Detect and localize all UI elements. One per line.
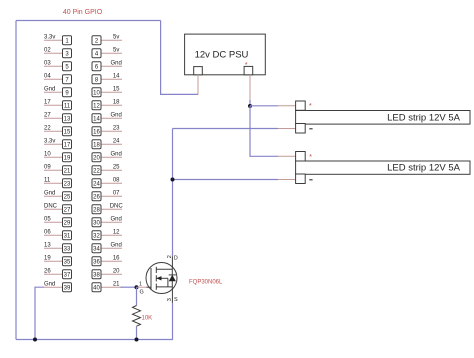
svg-text:21: 21 (64, 168, 71, 174)
LED strip 2 minus mark (309, 179, 312, 181)
pin 5 (03) (44, 60, 72, 70)
svg-text:11: 11 (64, 103, 71, 109)
LED strip 1 plus connector (296, 101, 306, 110)
svg-text:17: 17 (44, 99, 51, 105)
svg-text:28: 28 (93, 207, 100, 213)
svg-text:12: 12 (93, 103, 100, 109)
wire: top segment of ground loop (16, 20, 161, 22)
svg-text:20: 20 (113, 268, 120, 274)
svg-text:19: 19 (44, 255, 51, 261)
svg-text:DNC: DNC (44, 203, 58, 209)
svg-text:15: 15 (113, 86, 120, 92)
pin 26 (07) (92, 190, 122, 200)
svg-text:1: 1 (139, 281, 142, 287)
svg-text:40: 40 (93, 285, 100, 291)
resistor 10K (133, 306, 153, 327)
ground rail wire (16, 339, 173, 341)
svg-text:11: 11 (44, 177, 51, 183)
12v DC PSU box (185, 34, 266, 75)
pin 11 (17) (44, 99, 72, 109)
svg-text:25: 25 (113, 164, 120, 170)
gate pin stub (137, 286, 147, 288)
pin 16 (23) (92, 125, 122, 135)
svg-text:D: D (174, 256, 178, 262)
pin 3 (02) (44, 47, 72, 57)
svg-text:30: 30 (93, 220, 100, 226)
wire: pin 40 GPIO21 to gate node (121, 286, 137, 288)
pin 24 (08) (92, 177, 122, 187)
svg-text:13: 13 (64, 116, 71, 122)
svg-text:39: 39 (64, 285, 71, 291)
svg-text:Gnd: Gnd (111, 216, 122, 222)
svg-text:18: 18 (113, 99, 120, 105)
svg-text:Gnd: Gnd (111, 60, 122, 66)
wire: + node to LED strip 1 plus (250, 105, 278, 107)
svg-text:22: 22 (93, 168, 100, 174)
svg-text:10: 10 (93, 90, 100, 96)
LED strip 2 body (296, 161, 470, 174)
svg-text:02: 02 (44, 47, 51, 53)
pin 14 (Gnd) (92, 112, 122, 122)
svg-text:34: 34 (93, 246, 100, 252)
svg-text:10K: 10K (142, 316, 153, 322)
LED strip 2 minus connector (296, 174, 306, 184)
PSU negative pin stub (197, 75, 199, 95)
svg-text:S: S (174, 297, 178, 303)
svg-text:21: 21 (113, 281, 120, 287)
pin 37 (26) (44, 268, 72, 278)
svg-text:Gnd: Gnd (111, 242, 122, 248)
svg-text:33: 33 (64, 246, 71, 252)
svg-text:24: 24 (93, 181, 100, 187)
pin 36 (16) (92, 255, 122, 265)
svg-text:20: 20 (93, 155, 100, 161)
junction: gate node (135, 285, 139, 289)
svg-text:12: 12 (113, 229, 120, 235)
svg-text:22: 22 (44, 125, 51, 131)
svg-text:38: 38 (93, 272, 100, 278)
svg-text:LED strip 12V 5A: LED strip 12V 5A (387, 113, 461, 124)
pin 9 (Gnd) (44, 86, 72, 96)
svg-text:Gnd: Gnd (44, 281, 55, 287)
svg-text:06: 06 (44, 229, 51, 235)
pin 15 (22) (44, 125, 72, 135)
svg-text:15: 15 (64, 129, 71, 135)
PSU positive pin stub (249, 75, 251, 100)
svg-text:12v DC PSU: 12v DC PSU (195, 50, 249, 61)
svg-text:FQP30N06L: FQP30N06L (189, 280, 223, 286)
svg-text:04: 04 (44, 73, 51, 79)
pin 28 (DNC) (92, 203, 123, 213)
pin 1 (3.3v) (44, 34, 72, 44)
wire: left vertical of ground loop (15, 21, 17, 340)
svg-text:Gnd: Gnd (44, 190, 55, 196)
svg-text:Gnd: Gnd (111, 112, 122, 118)
svg-text:DNC: DNC (110, 203, 124, 209)
junction: PSU + node (248, 104, 252, 108)
pin 12 (18) (92, 99, 122, 109)
LED strip 1 minus connector (296, 124, 306, 134)
svg-text:29: 29 (64, 220, 71, 226)
svg-text:40 Pin GPIO: 40 Pin GPIO (63, 9, 103, 16)
svg-text:*: * (309, 101, 312, 110)
pin 13 (27) (44, 112, 72, 122)
svg-text:23: 23 (64, 181, 71, 187)
svg-text:26: 26 (93, 194, 100, 200)
svg-text:G: G (140, 289, 144, 295)
pin 39 (Gnd) (44, 281, 72, 291)
wire: gate node down to resistor (136, 287, 138, 305)
transistor Q1 FQP30N06L (N-MOSFET) (146, 263, 177, 294)
pin 31 (06) (44, 229, 72, 239)
svg-text:18: 18 (93, 142, 100, 148)
svg-text:07: 07 (113, 190, 120, 196)
svg-text:14: 14 (93, 116, 100, 122)
pin 8 (14) (92, 73, 122, 83)
svg-text:3.3v: 3.3v (44, 34, 55, 40)
pin 30 (Gnd) (92, 216, 122, 226)
svg-text:09: 09 (44, 164, 51, 170)
junction: resistor bottom on rail (135, 338, 139, 342)
pin 22 (25) (92, 164, 122, 174)
svg-text:*: * (309, 152, 312, 161)
svg-text:17: 17 (64, 142, 71, 148)
svg-text:23: 23 (113, 125, 120, 131)
wire: PSU negative to left loop (161, 21, 198, 95)
wire: + node down and to LED strip 2 plus (250, 106, 278, 156)
svg-text:10: 10 (44, 151, 51, 157)
svg-text:26: 26 (44, 268, 51, 274)
pin 38 (20) (92, 268, 122, 278)
pin 21 (09) (44, 164, 72, 174)
pin 20 (Gnd) (92, 151, 122, 161)
svg-text:25: 25 (64, 194, 71, 200)
svg-text:5v: 5v (113, 34, 119, 40)
svg-text:37: 37 (64, 272, 71, 278)
junction: strip2 minus on drain line (171, 178, 175, 182)
wire: LED strip 1 minus to drain line (278, 128, 296, 130)
pin 23 (11) (44, 177, 72, 187)
wire: LED strip 2 minus to drain line (278, 179, 296, 181)
svg-text:*: * (245, 60, 248, 69)
pin 27 (DNC) (44, 203, 72, 213)
pin 40 (21) (92, 281, 122, 291)
svg-text:5v: 5v (113, 47, 119, 53)
LED strip 2 plus connector (296, 152, 306, 162)
pin 4 (5v) (92, 47, 122, 57)
svg-text:05: 05 (44, 216, 51, 222)
junction: pin39 gnd on rail (33, 338, 37, 342)
wire: resistor to ground rail (136, 326, 138, 339)
svg-text:31: 31 (64, 233, 71, 239)
pin 6 (Gnd) (92, 60, 122, 70)
pin 2 (5v) (92, 34, 122, 44)
pin 17 (3.3v) (44, 138, 72, 148)
pin 19 (10) (44, 151, 72, 161)
pin 35 (19) (44, 255, 72, 265)
svg-text:Gnd: Gnd (44, 86, 55, 92)
wire: source down to ground rail (171, 289, 173, 303)
svg-text:3.3v: 3.3v (44, 138, 55, 144)
svg-text:08: 08 (113, 177, 120, 183)
svg-text:32: 32 (93, 233, 100, 239)
svg-text:24: 24 (113, 138, 120, 144)
PSU positive terminal (244, 66, 253, 74)
svg-text:36: 36 (93, 259, 100, 265)
svg-text:27: 27 (64, 207, 71, 213)
svg-text:LED strip 12V 5A: LED strip 12V 5A (387, 163, 461, 174)
pin 34 (Gnd) (92, 242, 122, 252)
pin 18 (24) (92, 138, 122, 148)
svg-text:03: 03 (44, 60, 51, 66)
wire: PSU + down to junction (249, 100, 251, 106)
svg-text:35: 35 (64, 259, 71, 265)
LED strip 1 minus mark (309, 128, 312, 130)
svg-text:16: 16 (113, 255, 120, 261)
wire: drain up to LED strip minus lines (172, 129, 174, 257)
PSU negative terminal (194, 67, 203, 75)
svg-text:16: 16 (93, 129, 100, 135)
LED strip 1 body (296, 111, 470, 125)
pin 10 (15) (92, 86, 122, 96)
svg-text:13: 13 (44, 242, 51, 248)
svg-text:27: 27 (44, 112, 51, 118)
wire: pin 39 Gnd to ground rail (35, 287, 44, 339)
pin 29 (05) (44, 216, 72, 226)
pin 25 (Gnd) (44, 190, 72, 200)
pin 7 (04) (44, 73, 72, 83)
svg-text:19: 19 (64, 155, 71, 161)
svg-text:14: 14 (113, 73, 120, 79)
svg-text:Gnd: Gnd (111, 151, 122, 157)
pin 33 (13) (44, 242, 72, 252)
pin 32 (12) (92, 229, 122, 239)
